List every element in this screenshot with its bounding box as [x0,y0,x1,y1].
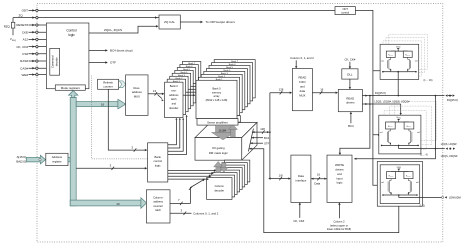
svg-text:CAS#: CAS# [20,66,28,70]
svg-text:DQ[15:0]: DQ[15:0] [375,91,386,95]
svg-text:128: 128 [260,127,265,131]
svg-text:Columns 0, 1, and 2: Columns 0, 1, and 2 [193,212,218,216]
svg-text:RON(PD): RON(PD) [407,126,412,128]
svg-text:BA[2:0]: BA[2:0] [16,159,26,163]
sense amplifiers [197,119,238,126]
gray arrows column decoder to I/O gating [216,166,221,173]
DLL block [342,69,358,79]
svg-text:A[15:0]: A[15:0] [17,155,26,159]
svg-text:and: and [172,102,177,106]
svg-text:ZQ: ZQ [19,13,24,17]
svg-text:ZQCL, ZQCS: ZQCL, ZQCS [104,28,122,32]
svg-text:OTF: OTF [110,61,116,65]
wire refresh counter to bank control logic [108,89,145,150]
svg-text:WRITE: WRITE [335,163,344,167]
svg-text:CS#: CS# [22,52,28,56]
wire OTF into I/O gating [250,142,263,144]
wire DM pad [399,195,442,197]
wire BC4 (burst chop) output [89,49,106,51]
svg-text:Control: Control [66,29,77,33]
svg-text:16: 16 [320,88,324,92]
svg-text:DM mask logic: DM mask logic [209,151,229,155]
svg-text:Column: Column [215,184,225,188]
svg-text:CK, CK#: CK, CK# [293,219,304,223]
data interface block [291,155,311,202]
input pin A12 [29,38,47,40]
svg-text:address: address [153,200,163,204]
wires bank control to column decoders [168,169,215,171]
svg-text:CKE: CKE [22,30,28,34]
svg-text:FIFO: FIFO [299,80,306,84]
svg-text:READ: READ [299,76,307,80]
input pin WE# [29,74,47,76]
svg-text:Command: Command [51,55,55,68]
wires row latch to memory array (per bank) [183,94,194,96]
wire DM mask from DM receiver to I/O gating [249,149,399,233]
svg-text:10: 10 [116,202,120,206]
svg-text:(8192 x 128 x 128): (8192 x 128 x 128) [206,98,228,102]
svg-text:128: 128 [279,88,284,92]
svg-text:(1 ... 16): (1 ... 16) [424,79,433,82]
svg-text:register: register [52,159,61,163]
output driver group DQS (1...4) [395,102,437,141]
address register block [46,153,68,165]
svg-text:sw2: sw2 [417,132,420,134]
wire BC4 into I/O gating [251,137,263,139]
row-address MUX block [126,75,148,116]
svg-text:DLL: DLL [347,73,353,77]
svg-text:(1 ... 4): (1 ... 4) [420,155,428,157]
wire DQ[15:0] bus [362,95,444,97]
wire dashed control path to bank control logic [92,76,148,159]
svg-text:logic: logic [155,163,161,167]
bank control logic block [148,143,168,182]
I/O gating DM mask logic block (3D) [195,123,257,138]
svg-text:A12: A12 [23,38,29,42]
input pin ODT [29,9,336,11]
memory array stack banks 7..0 [214,60,255,98]
svg-text:row-: row- [171,88,176,92]
svg-text:sw2: sw2 [415,61,418,63]
svg-text:LDQS, LDQS#: LDQS, LDQS# [441,143,457,146]
svg-text:13: 13 [153,89,157,93]
input pin RESET# [29,24,47,26]
svg-text:(select upper or: (select upper or [330,223,348,227]
command decode sub-block [50,48,60,75]
svg-text:Column 2: Column 2 [333,220,345,224]
bus 128 into READ FIFO [270,92,290,94]
svg-text:RON(PD): RON(PD) [405,55,410,57]
svg-text:MUX: MUX [299,93,305,97]
svg-text:and: and [337,172,342,176]
output driver stack DQ (1...16) [389,34,428,69]
svg-text:latch: latch [171,97,177,101]
svg-text:address: address [169,93,179,97]
svg-text:logic: logic [337,181,343,185]
svg-text:Column 0, 1, and 2: Column 0, 1, and 2 [290,56,314,60]
svg-text:RON(PU): RON(PU) [388,126,393,128]
input termination group DM (LDM/UDM) [377,162,422,207]
svg-text:CK, CK#: CK, CK# [344,57,355,61]
mode registers sub-block [55,85,85,90]
READ FIFO and data MUX block [292,69,312,111]
wire ODT control to drivers [355,10,373,70]
ZQ CAL block [159,15,180,29]
svg-text:sw1: sw1 [381,61,384,63]
wire driver output to DQ bus [397,72,399,96]
svg-text:latch: latch [155,208,161,212]
READ drivers block [338,89,362,111]
svg-text:RESET#: RESET# [16,23,28,27]
svg-text:(1, 2): (1, 2) [420,205,426,207]
svg-text:counter/: counter/ [153,204,163,208]
svg-text:logic: logic [68,33,75,37]
svg-text:LDQS, LDQS#, UDQS, UDQS#: LDQS, LDQS#, UDQS, UDQS# [375,101,411,104]
svg-text:control: control [341,10,349,14]
wires bank control to row latches [168,120,177,145]
svg-text:I/O gating: I/O gating [212,146,225,150]
svg-text:Mode registers: Mode registers [61,86,81,90]
svg-text:ODT: ODT [22,9,29,13]
svg-text:RON(PD): RON(PD) [406,176,411,178]
wire 7-bit column address to column decoders [170,180,203,204]
bus 1/8 between vertical and data interface [270,178,289,180]
svg-text:1/8: 1/8 [279,173,283,177]
svg-text:BC4 (burst chop): BC4 (burst chop) [110,49,133,53]
wire ZQCL, ZQCS from control logic to ZQ CAL [89,26,157,33]
svg-text:16: 16 [101,102,105,106]
WRITE drivers and input logic block [327,155,352,202]
svg-text:Bank 0: Bank 0 [212,87,221,91]
svg-text:sw1: sw1 [380,132,383,134]
svg-text:DQ[15:0]: DQ[15:0] [447,98,458,102]
svg-text:RON(PU): RON(PU) [389,176,394,178]
wire 13-bit row address to bank latches [148,93,162,95]
svg-text:decoder: decoder [214,188,224,192]
column-address counter/latch block [146,190,170,223]
wire ZQ CAL output: To ODT/output drivers [180,21,200,23]
input pin CAS# [29,67,47,69]
svg-text:To ODT/output drivers: To ODT/output drivers [206,20,236,24]
svg-text:decode: decode [54,57,58,66]
svg-text:Data: Data [298,174,304,178]
ODT control block [335,7,355,15]
bank row-address latch and decoder stack (banks 7..0) [182,62,200,97]
input pin CS# [29,53,47,55]
svg-text:RON(PU): RON(PU) [388,55,393,57]
svg-text:sw2: sw2 [416,182,419,184]
svg-text:BC4: BC4 [264,136,270,140]
svg-text:16,384: 16,384 [219,130,227,133]
column decoder stack banks 7..0 [224,160,249,182]
wire DQS strobe to WRITE drivers [354,96,435,159]
svg-text:OTF: OTF [264,141,270,145]
input pin CK, CK# [29,46,47,48]
bus 16 READ FIFO to READ drivers [312,92,336,94]
svg-text:MUX: MUX [134,94,140,98]
pad DQ[15:0] [445,94,447,96]
svg-text:sw1: sw1 [381,182,384,184]
svg-text:WE#: WE# [21,73,28,77]
svg-text:UDQS, UDQS#: UDQS, UDQS# [441,155,458,158]
svg-text:Bank 0: Bank 0 [170,84,179,88]
svg-text:memory: memory [212,90,222,94]
refresh counter block [98,79,119,89]
bus address input arrow (teal) [26,155,45,164]
input pin CKE [29,31,47,33]
wire columns 0,1,2 [170,212,192,214]
svg-text:CK, CK#: CK, CK# [16,45,28,49]
bus sense amps to I/O gating (gray arrows, 16,384) [216,125,231,133]
input pin RAS# [29,60,47,62]
resistor RZQ (external, ZQ to VSSQ) [12,18,14,22]
wire BA bus to bank control logic [76,167,145,169]
svg-text:ZQ CAL: ZQ CAL [164,20,175,24]
svg-text:RAS#: RAS# [20,59,28,63]
svg-text:16: 16 [317,173,321,177]
bus 128 vertical to READ FIFO and data interface [269,93,271,179]
svg-text:data: data [300,89,306,93]
wire write data path [340,96,370,153]
svg-text:drivers: drivers [335,168,344,172]
bus 128 between I/O gating and data verticals [252,131,268,133]
svg-text:RZQ: RZQ [4,24,11,28]
svg-text:decoder: decoder [169,106,179,110]
svg-text:array: array [214,94,221,98]
wire OTF output [89,62,106,64]
svg-text:BC4: BC4 [348,124,354,128]
control logic U: control logic block [46,23,89,89]
svg-text:Data: Data [314,181,320,185]
svg-text:drivers: drivers [346,101,355,105]
svg-text:LDM/UDM: LDM/UDM [449,197,461,200]
input pin ZQ [13,17,159,19]
svg-text:Sense amplifiers: Sense amplifiers [207,120,228,124]
svg-text:and: and [300,85,305,89]
hollow arrow refresh counter to row-address MUX [119,81,125,88]
svg-text:Column-: Column- [153,195,163,199]
svg-text:input: input [336,176,342,180]
wire DQS strobes [362,103,400,105]
wire DLL to READ drivers [349,79,351,87]
bus address path (teal): trunk, mode-register arrow, row bus, column bus [70,97,76,205]
wire DQS to pad [398,145,400,148]
wire DQS down to DQS drivers [400,104,402,113]
svg-text:interface: interface [296,178,307,182]
svg-text:counter: counter [103,84,112,88]
svg-text:lower nibble for BC8): lower nibble for BC8) [327,227,351,231]
bus 16 Data between data interface and WRITE drivers [311,178,327,180]
